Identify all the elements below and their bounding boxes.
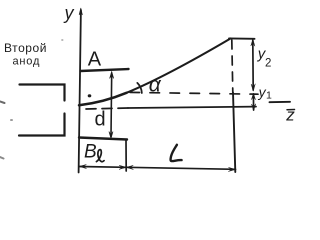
scan speck left lower <box>10 119 13 121</box>
svg-text:z: z <box>285 105 295 124</box>
svg-text:анод: анод <box>13 56 41 68</box>
scan speck left edge mid <box>0 102 5 104</box>
y axis arrowhead <box>79 8 82 15</box>
svg-text:2: 2 <box>265 57 271 69</box>
z axis end segment <box>270 101 291 103</box>
screen dashed vertical <box>232 40 233 93</box>
y1 arrow down <box>252 104 256 111</box>
plate B (bottom deflection plate) <box>79 138 127 140</box>
beam straight segment to screen <box>127 39 231 93</box>
y axis <box>79 10 81 173</box>
d dimension line <box>110 73 113 137</box>
tick at beam hit point <box>229 37 255 39</box>
label ℓ (plate length, script ell) <box>96 150 104 162</box>
L dim left arrow <box>126 165 133 169</box>
y2 arrow down <box>251 84 255 91</box>
screen solid vertical <box>233 93 235 173</box>
extension line at plate end <box>125 140 127 172</box>
scan speck bottom left <box>0 157 4 159</box>
y1 arrow up <box>251 93 255 99</box>
svg-text:1: 1 <box>266 89 272 101</box>
anode bottom bracket <box>19 114 65 136</box>
scan speck upper mid <box>61 39 63 41</box>
L dimension line (plates to screen) <box>126 167 236 169</box>
y2 arrow up <box>251 39 255 46</box>
L dim right arrow <box>229 167 236 171</box>
l dimension line (plate length) <box>80 166 127 169</box>
y1 dimension line <box>252 94 254 110</box>
svg-text:y: y <box>63 3 75 23</box>
ink dot near origin <box>88 94 92 97</box>
svg-text:Второй: Второй <box>4 41 47 55</box>
plate A (top deflection plate) <box>81 69 129 71</box>
svg-text:B: B <box>84 142 97 163</box>
l dim right arrow <box>119 165 126 169</box>
z axis solid portion <box>128 107 256 108</box>
z axis dashed portion <box>86 108 128 109</box>
svg-text:α: α <box>149 74 162 97</box>
l dim left arrow <box>79 165 86 169</box>
beam parabola inside plates <box>79 93 127 105</box>
svg-text:A: A <box>88 48 102 70</box>
dashed level line y1 (exit height) <box>130 92 258 94</box>
d arrow up <box>110 72 114 79</box>
y2 dimension line <box>252 40 254 90</box>
svg-text:d: d <box>95 109 106 131</box>
d arrow down <box>109 132 113 139</box>
anode top bracket <box>20 85 65 101</box>
macron over z <box>287 109 295 111</box>
angle arc <box>137 83 142 93</box>
label L <box>171 145 182 161</box>
